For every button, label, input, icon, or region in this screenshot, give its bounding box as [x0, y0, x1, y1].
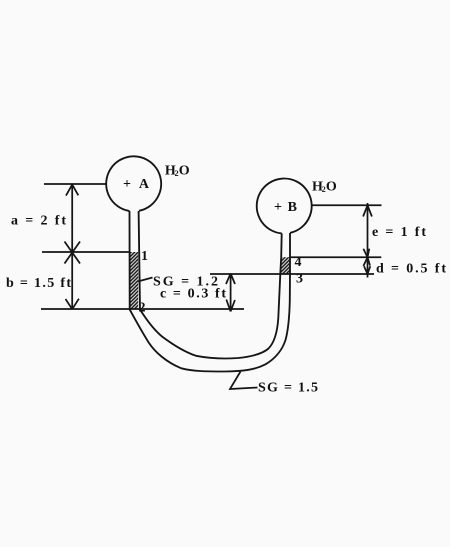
- svg-text:4: 4: [295, 255, 302, 270]
- svg-text:2: 2: [139, 301, 146, 316]
- svg-text:d = 0.5 ft: d = 0.5 ft: [376, 262, 446, 277]
- svg-text:SG = 1.5: SG = 1.5: [258, 381, 318, 396]
- svg-text:c = 0.3 ft: c = 0.3 ft: [160, 287, 226, 302]
- svg-text:b = 1.5 ft: b = 1.5 ft: [6, 276, 71, 291]
- svg-text:1: 1: [141, 249, 148, 264]
- svg-text:3: 3: [296, 272, 303, 287]
- svg-text:+ B: + B: [274, 200, 297, 215]
